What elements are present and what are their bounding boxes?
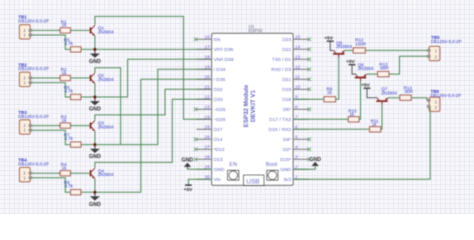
wire Q4 emitter to GND node [94, 179, 96, 193]
svg-text:3v3: 3v3 [283, 177, 291, 183]
svg-text:4.7k: 4.7k [64, 88, 73, 93]
wire TB2.2 to R2 [32, 77, 60, 79]
svg-text:1k: 1k [372, 122, 378, 127]
ESP32 pin 7 D17 / TX2 [269, 115, 308, 124]
svg-text:Vin: Vin [214, 177, 221, 183]
svg-text:D23: D23 [282, 37, 291, 43]
connector TB1 [18, 15, 49, 39]
wire R10 to Q6 base [359, 78, 361, 119]
resistor R3 [59, 115, 73, 129]
svg-text:2N3904: 2N3904 [98, 125, 114, 130]
ground [89, 49, 101, 65]
svg-text:11: 11 [295, 75, 300, 81]
svg-text:25: 25 [203, 125, 210, 131]
wire TB4.1 to R8 [32, 178, 71, 192]
ESP32 pin 2 GND [280, 165, 308, 174]
svg-text:I D35: I D35 [214, 77, 226, 83]
ESP32 pin 16 EN [194, 35, 221, 44]
node junction ch4 [93, 191, 96, 194]
resistor R13 [378, 62, 390, 77]
wire R6 to GND node [81, 96, 95, 98]
transistor Q2 [90, 73, 114, 84]
ESP32 pin 22 D33 [197, 95, 223, 104]
svg-text:2N3904: 2N3904 [336, 44, 352, 49]
node junction ch3 [93, 143, 96, 146]
svg-text:27: 27 [203, 145, 210, 151]
svg-text:TX0 / D1: TX0 / D1 [272, 57, 292, 63]
svg-text:23: 23 [203, 105, 210, 111]
wire Q6 emitter to R13 [367, 73, 378, 75]
svg-text:GND: GND [89, 154, 101, 160]
ESP32 pin 15 D23 [282, 35, 311, 44]
wire Q5 emitter to R12 [345, 49, 353, 51]
svg-text:19: 19 [204, 65, 210, 71]
svg-text:GND: GND [214, 167, 225, 173]
svg-text:8: 8 [295, 105, 298, 111]
svg-text:+5V: +5V [361, 82, 370, 88]
svg-text:150R: 150R [355, 41, 367, 46]
svg-text:2N3904: 2N3904 [358, 66, 374, 71]
svg-text:D5*: D5* [283, 107, 291, 113]
svg-text:+5V: +5V [324, 35, 333, 41]
svg-text:1k: 1k [327, 90, 333, 95]
wire R1 to Q1 base [70, 29, 90, 31]
svg-text:4.7k: 4.7k [64, 41, 73, 46]
wire Q1 emitter to GND node [94, 36, 96, 50]
node junction ch1 [93, 48, 96, 51]
wire Q2 emitter to GND node [94, 83, 96, 97]
ESP32 pin 20 I D35 [197, 75, 226, 84]
svg-text:21: 21 [203, 85, 210, 91]
svg-text:D33: D33 [214, 97, 223, 103]
svg-text:VP/I D36: VP/I D36 [214, 47, 234, 53]
wire R9 to Q5 base [336, 55, 339, 100]
svg-text:D19: D19 [282, 87, 291, 93]
wire Q3 emitter to GND node [94, 131, 96, 145]
svg-text:GND: GND [309, 157, 321, 163]
svg-text:D2*: D2* [283, 147, 291, 153]
power flag +5V (Q6) and transistor Q6 [346, 59, 374, 82]
ESP32 pin 3 D15* [280, 155, 311, 164]
svg-text:DB126V-5.0-2P: DB126V-5.0-2P [431, 93, 462, 98]
Boot button [266, 162, 278, 180]
svg-text:28: 28 [203, 155, 210, 161]
svg-text:VN/I D39: VN/I D39 [214, 57, 234, 63]
ground [89, 145, 101, 161]
svg-text:ESP32: ESP32 [249, 28, 264, 33]
USB port [244, 175, 265, 186]
wire R5 to GND node [81, 48, 95, 50]
ESP32 pin 21 D32 [197, 85, 223, 94]
ESP32 pin 18 VN/I D39 [197, 55, 234, 64]
resistor R1 [59, 19, 73, 33]
wire R11 to Q7 base [381, 102, 382, 129]
connector TB5 [427, 35, 461, 60]
wire Q3 collector route [95, 89, 212, 120]
ground [89, 192, 101, 208]
svg-text:D16 / RX2: D16 / RX2 [269, 127, 292, 133]
svg-text:GND: GND [89, 59, 101, 65]
svg-text:16: 16 [204, 35, 210, 41]
wire R3 to Q3 base [70, 125, 90, 127]
wire Q4 collector route [95, 99, 212, 167]
svg-text:17: 17 [204, 45, 210, 51]
wire R14 to TB6.1 [411, 98, 429, 101]
wire pin1 3v3 to TB6.2 [293, 108, 430, 180]
svg-text:D18: D18 [282, 97, 291, 103]
resistor R6 [64, 85, 81, 100]
wire R7 to GND node [81, 144, 95, 146]
wire TB3.2 to R3 [32, 125, 60, 127]
svg-text:GND: GND [280, 167, 291, 173]
ESP32 pin 26 D14 [194, 135, 223, 144]
ESP32 pin 12 RX0 / D3 [271, 65, 311, 74]
svg-text:Boot: Boot [266, 162, 278, 168]
transistor Q4 [90, 168, 114, 179]
ESP32 pin 24 ~D26 [197, 115, 226, 124]
ESP32 pin 8 D5* [283, 105, 311, 114]
ground flag GND (pin2) [309, 157, 321, 166]
svg-text:~D25: ~D25 [214, 107, 226, 113]
connector TB6 [427, 89, 461, 111]
svg-text:5: 5 [295, 135, 298, 141]
svg-text:24: 24 [203, 115, 210, 121]
ESP32 pin 11 D21 [282, 75, 311, 84]
svg-text:DB126V-5.0-2P: DB126V-5.0-2P [18, 161, 49, 166]
ground flag GND (pin29) [182, 157, 194, 169]
ESP32 pin 1 3v3 [283, 175, 308, 184]
svg-text:1k: 1k [62, 166, 68, 171]
transistor Q3 [90, 120, 114, 131]
transistor Q1 [90, 25, 114, 36]
ESP32 pin 10 D19 [282, 85, 311, 94]
svg-text:+5V: +5V [346, 59, 355, 65]
resistor R10 [348, 108, 359, 121]
svg-text:D27: D27 [214, 127, 223, 133]
ESP32 pin 25 D27 [197, 125, 223, 134]
wire pin9 D18 to R9 [293, 98, 324, 100]
svg-text:2N3904: 2N3904 [381, 90, 397, 95]
wire TB4.2 to R4 [32, 172, 60, 174]
svg-text:DEVKIT V1: DEVKIT V1 [250, 89, 257, 122]
svg-text:2N3904: 2N3904 [98, 29, 114, 34]
ESP32 module U1 body [212, 24, 293, 185]
svg-text:1k: 1k [62, 118, 68, 123]
svg-text:D32: D32 [214, 87, 223, 93]
svg-text:D15*: D15* [280, 157, 291, 163]
svg-text:DB126V-5.0-2P: DB126V-5.0-2P [18, 114, 49, 119]
svg-text:18: 18 [204, 55, 210, 61]
ESP32 pin 29 GND [197, 165, 225, 174]
svg-text:D17 / TX2: D17 / TX2 [269, 117, 291, 123]
wire +5V flag to pin 30 [188, 179, 211, 184]
svg-text:DB126V-5.0-2P: DB126V-5.0-2P [18, 19, 49, 24]
svg-text:13: 13 [295, 55, 301, 61]
EN button [228, 162, 239, 180]
node junction ch2 [93, 95, 96, 98]
wire TB2.1 to R6 [32, 83, 71, 97]
connector TB4 [18, 158, 49, 182]
svg-text:D13: D13 [214, 157, 223, 163]
connector TB3 [18, 110, 49, 134]
resistor R14 [400, 86, 414, 101]
svg-text:D22: D22 [282, 47, 291, 53]
resistor R5 [64, 37, 81, 52]
wire GND flag to pin 29 [188, 168, 212, 170]
wire R12 to TB5.1 [365, 49, 427, 51]
svg-text:90R: 90R [405, 89, 414, 94]
svg-text:1k: 1k [62, 70, 68, 75]
ESP32 module vertical title [243, 84, 257, 127]
svg-text:RX0 / D3: RX0 / D3 [271, 67, 291, 73]
ESP32 pin 13 TX0 / D1 [272, 55, 311, 64]
svg-text:*D12: *D12 [214, 147, 225, 153]
svg-text:GND: GND [182, 157, 194, 163]
svg-text:+5V: +5V [184, 187, 193, 193]
wire GND node ch3 to module [95, 69, 212, 144]
wire TB3.1 to R7 [32, 130, 71, 144]
resistor R9 [324, 87, 336, 102]
resistor R7 [64, 133, 81, 148]
svg-text:15: 15 [295, 35, 301, 41]
wire Q1 collector route [95, 16, 212, 119]
wire R2 to Q2 base [70, 77, 90, 79]
svg-text:10: 10 [295, 85, 301, 91]
ESP32 pin 30 Vin [197, 175, 221, 184]
wire GND node ch4 to module [95, 79, 212, 192]
svg-text:GND: GND [89, 107, 101, 113]
wire pin2 GND to flag [293, 166, 315, 169]
wire pin6 D16/RX2 to R11 [293, 128, 370, 130]
power flag +5V (Q7) and transistor Q7 [361, 82, 397, 105]
svg-text:3: 3 [295, 155, 298, 161]
wire Q7 emitter to R14 [388, 97, 400, 99]
ESP32 pin 27 *D12 [194, 145, 225, 154]
svg-text:14: 14 [295, 45, 301, 51]
wire R13 to TB5.2 [389, 56, 428, 74]
wire Q2 collector route [95, 68, 121, 145]
svg-text:4.7k: 4.7k [64, 136, 73, 141]
wire TB1.1 to R5 [32, 35, 71, 49]
connector TB2 [18, 62, 49, 86]
ESP32 pin 19 I D34 [197, 65, 226, 74]
svg-text:DB126V-5.0-2P: DB126V-5.0-2P [431, 39, 462, 44]
resistor R11 [370, 119, 381, 132]
svg-text:D21: D21 [282, 77, 291, 83]
svg-text:90R: 90R [380, 66, 389, 71]
resistor R8 [64, 180, 81, 195]
wire GND node ch1 to module [95, 48, 212, 50]
ESP32 pin 17 VP/I D36 [197, 45, 234, 54]
svg-text:D14: D14 [214, 137, 223, 143]
svg-text:26: 26 [203, 135, 210, 141]
svg-text:USB: USB [246, 179, 259, 186]
svg-text:2N3904: 2N3904 [98, 172, 114, 177]
ESP32 pin 23 ~D25 [194, 105, 226, 114]
svg-text:1k: 1k [349, 112, 355, 117]
svg-text:ESP32 Module: ESP32 Module [243, 84, 250, 127]
svg-text:22: 22 [203, 95, 210, 101]
svg-text:20: 20 [203, 75, 210, 81]
svg-text:2N3904: 2N3904 [98, 77, 114, 82]
svg-text:12: 12 [295, 65, 301, 71]
ESP32 pin 9 D18 [282, 95, 308, 104]
wire GND node ch2 to module [95, 59, 212, 97]
wire TB1.2 to R1 [32, 29, 60, 31]
svg-text:4.7k: 4.7k [64, 184, 73, 189]
ESP32 pin 6 D16 / RX2 [269, 125, 309, 134]
svg-text:~D26: ~D26 [214, 117, 226, 123]
ESP32 pin 28 D13 [194, 155, 223, 164]
wire R8 to GND node [81, 191, 95, 193]
power flag +5V (pin30) [184, 185, 193, 194]
ESP32 pin 4 D2* [283, 145, 311, 154]
power flag +5V (Q5) and transistor Q5 [324, 35, 352, 57]
svg-text:D4*: D4* [283, 137, 291, 143]
ESP32 pin 5 D4* [283, 135, 311, 144]
svg-text:DB126V-5.0-2P: DB126V-5.0-2P [18, 66, 49, 71]
wire R4 to Q4 base [70, 172, 90, 174]
svg-text:EN: EN [214, 37, 221, 43]
ground [89, 97, 101, 113]
ESP32 pin 14 D22 [282, 45, 311, 54]
resistor R4 [59, 162, 73, 176]
svg-text:EN: EN [229, 162, 237, 168]
resistor R2 [59, 67, 73, 81]
svg-text:1k: 1k [62, 23, 68, 28]
svg-text:GND: GND [89, 202, 101, 208]
svg-text:I D34: I D34 [214, 67, 226, 73]
svg-text:4: 4 [295, 145, 298, 151]
resistor R12 [353, 38, 367, 53]
wire pin7 D17/TX2 to R10 [293, 118, 348, 120]
